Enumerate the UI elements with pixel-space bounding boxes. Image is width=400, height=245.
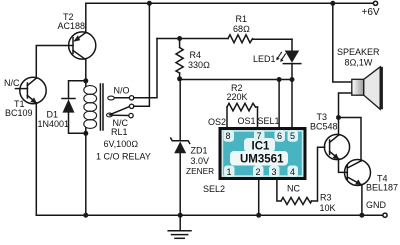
svg-text:BC548: BC548 [310,122,338,132]
node junction gnd T4 [359,213,364,218]
svg-text:R4: R4 [190,50,202,60]
zener ZD1 3.0V [171,79,214,215]
wire pole to +6V rail [134,3,150,106]
resistor R1 68ohm [228,14,292,43]
wire pin 2 to ground [258,179,260,216]
node junction gnd zener [178,213,183,218]
ground symbol [168,215,191,238]
IC U1 UM3561 box [220,129,305,179]
node junction speaker/T3/T4 [336,115,341,120]
wire T2 base from T1 collector [36,46,73,79]
svg-text:7: 7 [257,131,262,141]
svg-text:RL1: RL1 [111,127,128,137]
wire ground rail [36,214,383,216]
node junction top rail / speaker [330,1,335,6]
transistor Q T3 BC548 [310,112,350,160]
speaker SPEAKER 8ohm 1W [333,3,383,117]
node junction R4 top [177,36,182,41]
wire T2 emitter to top rail [85,3,87,32]
svg-text:SEL2: SEL2 [203,184,225,194]
svg-text:330Ω: 330Ω [188,60,210,70]
relay contacts: pole oval top [108,96,115,100]
wire R1/R4 supply line y38.5 [157,38,228,40]
svg-text:R1: R1 [236,14,248,24]
svg-text:220K: 220K [227,92,248,102]
transistor Q T4 BEL187 [345,160,399,193]
resistor R3 10K [281,147,336,213]
relay RL1 coil [84,86,97,129]
wire T1 emitter to ground rail [35,103,37,215]
svg-text:4: 4 [290,167,295,177]
transistor Q T1 BC109 [5,77,46,118]
wire pin 6 [278,80,280,129]
svg-text:1 C/O RELAY: 1 C/O RELAY [96,152,151,162]
diode D1 1N4001 [38,81,86,134]
node junction gnd pin2 [256,213,261,218]
svg-text:N/O: N/O [114,86,130,96]
svg-text:N/C: N/C [4,78,20,88]
svg-text:3.0V: 3.0V [191,156,210,166]
svg-text:SEL1: SEL1 [258,116,280,126]
wire T4 emitter to ground rail [361,185,363,216]
svg-text:ZD1: ZD1 [191,146,208,156]
wire pin 5 [291,80,293,129]
svg-text:D1: D1 [47,110,59,120]
node junction R4 bottom / ZD1 / melody rail [177,76,182,81]
terminal GND [383,213,387,217]
resistor R4 330ohm [176,39,210,79]
wire T2 collector to relay coil [85,60,87,87]
svg-text:BC109: BC109 [5,108,33,118]
svg-text:1N4001: 1N4001 [38,119,70,129]
wire coil bottom to ground rail [85,128,87,215]
node junction coil top / D1 [83,78,88,83]
transistor Q T2 AC188 [58,12,96,60]
relay contact N/O circle [114,97,129,99]
svg-text:R3: R3 [320,193,332,203]
svg-text:BEL187: BEL187 [366,183,398,193]
resistor R2 220K [227,83,258,128]
relay core bars [99,84,101,130]
node junction coil bottom / D1 [83,131,88,136]
relay pole pivot oval [107,113,113,117]
svg-text:1: 1 [227,167,232,177]
svg-text:6V,100Ω: 6V,100Ω [104,139,139,149]
node junction top rail / relay pole [147,1,152,6]
svg-text:10K: 10K [320,203,336,213]
svg-text:T3: T3 [317,112,328,122]
wire T1 base stub N/C [16,88,28,90]
node junction pin5 / LED [290,77,295,82]
wire pin 3 to R3 [277,179,281,202]
svg-text:NC: NC [287,184,300,194]
node junction gnd coil [83,213,88,218]
svg-text:LED1: LED1 [253,54,276,64]
svg-text:6: 6 [277,131,282,141]
svg-text:OS1: OS1 [238,116,256,126]
svg-text:AC188: AC188 [58,21,86,31]
LED LED1 [253,39,301,79]
svg-text:+6V: +6V [362,7,380,18]
svg-text:SPEAKER: SPEAKER [337,47,380,57]
svg-text:ZENER: ZENER [186,166,214,176]
svg-text:8Ω,1W: 8Ω,1W [345,58,373,68]
wire N/O contact to R1 line [134,39,157,98]
terminal +6V [373,1,377,5]
svg-text:IC1: IC1 [252,141,271,153]
wire T3 collector [338,118,340,136]
wire T3 emitter to T4 base [339,159,348,173]
wire to T4 collector [339,118,362,161]
node junction pin6 [277,77,282,82]
relay moving arm [110,107,130,115]
relay contact N/C circle [111,114,129,116]
wire top +6V rail [86,2,373,4]
svg-text:2: 2 [256,167,261,177]
svg-text:5: 5 [290,131,295,141]
wire melody supply rail y79.5 [180,79,292,81]
svg-text:GND: GND [366,200,387,210]
svg-text:UM3561: UM3561 [240,154,284,166]
svg-text:3: 3 [272,167,277,177]
svg-text:OS2: OS2 [208,117,226,127]
svg-text:68Ω: 68Ω [233,24,250,34]
svg-text:8: 8 [226,131,231,141]
